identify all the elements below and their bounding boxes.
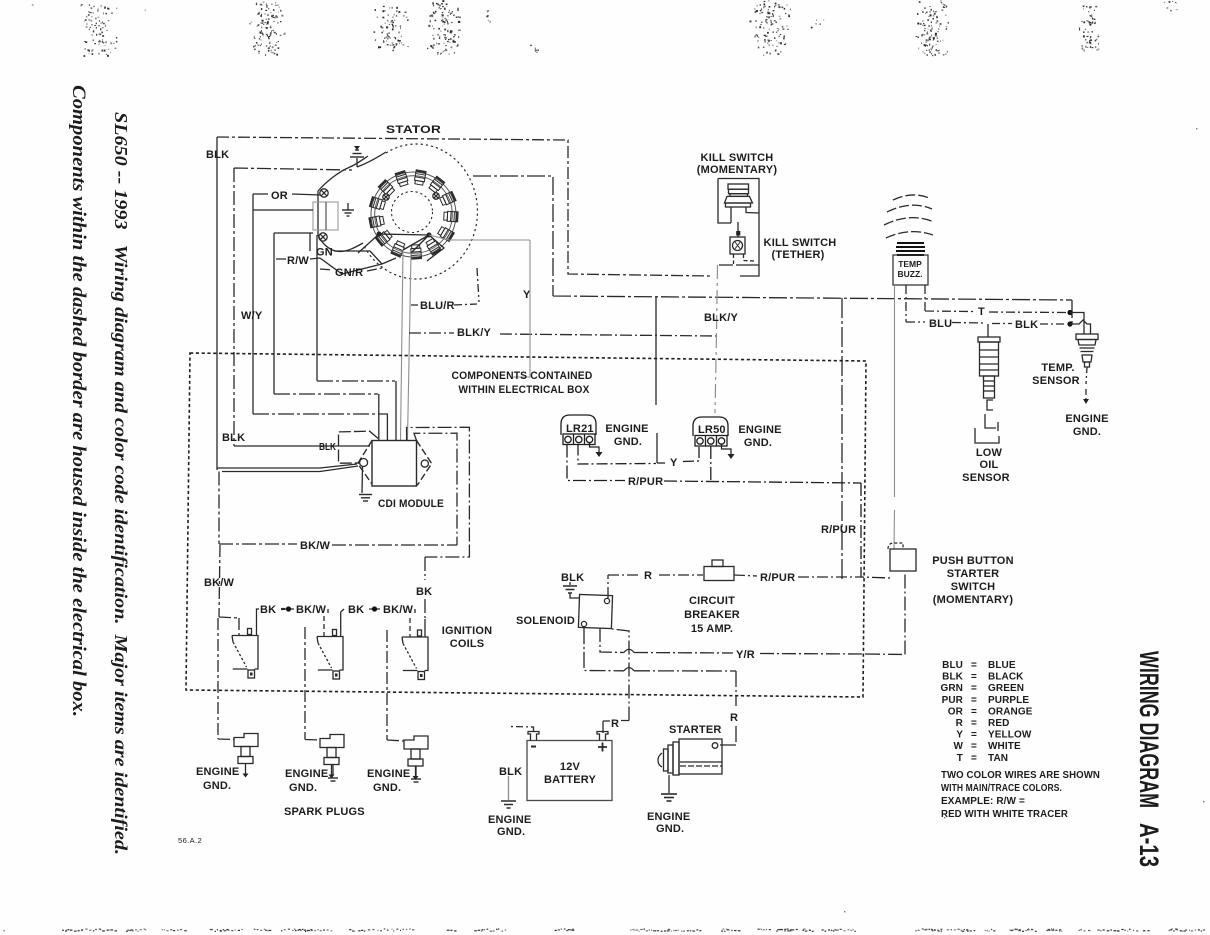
svg-text:=: = (971, 695, 977, 706)
svg-text:LOW: LOW (976, 447, 1003, 459)
battery positive post (597, 732, 608, 741)
svg-text:OIL: OIL (980, 459, 999, 471)
wire R/W branch (276, 258, 320, 259)
color code legend (940, 660, 1032, 764)
svg-text:WHITE: WHITE (988, 741, 1021, 752)
flange bolt lower (319, 233, 327, 241)
wire R/PUR from breaker (734, 575, 861, 577)
svg-text:ORANGE: ORANGE (988, 706, 1033, 717)
svg-text:BLK/Y: BLK/Y (704, 312, 738, 324)
svg-text:SPARK PLUGS: SPARK PLUGS (284, 806, 365, 818)
wire BK/W left drop (218, 545, 239, 740)
wire to spark plug 3 (387, 630, 404, 741)
svg-text:BLK: BLK (319, 442, 337, 453)
wire BLK vertical bus (216, 137, 218, 470)
svg-text:A-13: A-13 (1134, 823, 1164, 867)
flange ground top (350, 146, 364, 167)
svg-text:ENGINE: ENGINE (605, 423, 648, 435)
wire BLU/R drop (411, 268, 479, 305)
svg-text:PURPLE: PURPLE (988, 695, 1029, 706)
svg-text:BLK: BLK (561, 572, 584, 584)
wire Y/R (600, 571, 905, 655)
svg-text:BK/W: BK/W (300, 540, 331, 552)
svg-text:KILL SWITCH: KILL SWITCH (764, 237, 837, 249)
svg-text:15 AMP.: 15 AMP. (691, 623, 733, 635)
wire BLU/R gray link (429, 235, 530, 377)
wire BK/W main (219, 472, 457, 546)
solenoid ground (563, 582, 577, 593)
push button switch (888, 543, 916, 571)
battery negative lead (509, 727, 534, 732)
svg-text:BLK/Y: BLK/Y (457, 327, 491, 339)
svg-text:SOLENOID: SOLENOID (516, 615, 575, 627)
battery minus sign (531, 746, 536, 748)
wire bus third (274, 233, 313, 394)
stator connector block (313, 202, 338, 230)
spark plug 3 (404, 736, 428, 780)
svg-text:ENGINE: ENGINE (367, 768, 410, 780)
svg-text:W/Y: W/Y (241, 310, 263, 322)
svg-text:=: = (971, 683, 977, 694)
CDI module body (358, 441, 432, 487)
svg-text:TAN: TAN (988, 753, 1008, 764)
svg-text:R/W: R/W (287, 255, 309, 267)
stator left flange outline (318, 152, 386, 252)
stator winding junction node (377, 232, 382, 237)
svg-text:ENGINE: ENGINE (196, 766, 239, 778)
svg-text:BLU: BLU (929, 318, 952, 330)
svg-text:12V: 12V (560, 761, 581, 773)
svg-text:Y/R: Y/R (736, 649, 755, 661)
svg-text:RED WITH WHITE TRACER: RED WITH WHITE TRACER (941, 809, 1069, 820)
svg-text:(MOMENTARY): (MOMENTARY) (933, 594, 1014, 606)
wire Y from stator (473, 176, 1072, 324)
svg-text:R/PUR: R/PUR (628, 476, 663, 488)
svg-text:LR21: LR21 (566, 423, 594, 435)
wire solenoid to starter (584, 628, 736, 745)
starter ground lead (668, 775, 670, 793)
svg-text:SL650 -- 1993 Wiring diagram: SL650 -- 1993 Wiring diagram and color c… (111, 112, 131, 855)
stator inner dashed circle (371, 172, 456, 257)
wire Y drop to push button (841, 298, 843, 580)
wire stator gray drop A (401, 250, 404, 440)
svg-text:BLK: BLK (499, 766, 522, 778)
tether switch stem (737, 222, 739, 231)
wire BLK/Y drop from kill switch (715, 265, 718, 413)
svg-text:ENGINE: ENGINE (285, 768, 328, 780)
plug3 ground (411, 766, 421, 782)
svg-text:=: = (971, 660, 977, 671)
pair1 link BK dot BK/W (283, 609, 328, 613)
svg-text:ENGINE: ENGINE (647, 811, 690, 823)
svg-text:Components within the dashed b: Components within the dashed border are … (68, 85, 89, 717)
svg-text:EXAMPLE: R/W =: EXAMPLE: R/W = (941, 796, 1025, 807)
svg-text:=: = (971, 753, 977, 764)
wire stator gray drop B (408, 253, 412, 440)
wire BLK top (bus to kill switch) (217, 137, 712, 276)
pair2 link BK dot BK/W (369, 609, 415, 613)
svg-text:ENGINE: ENGINE (738, 424, 781, 436)
svg-text:BLK: BLK (222, 432, 245, 444)
svg-text:COMPONENTS CONTAINED: COMPONENTS CONTAINED (452, 370, 593, 382)
wire to spark plug 2 (305, 627, 320, 740)
svg-text:SWITCH: SWITCH (951, 581, 996, 593)
svg-text:R: R (644, 570, 652, 582)
ignition coil 3 (402, 630, 428, 680)
svg-text:TWO COLOR WIRES ARE SHOWN: TWO COLOR WIRES ARE SHOWN (941, 770, 1100, 781)
svg-text:KILL SWITCH: KILL SWITCH (701, 152, 774, 164)
relay LR50 (693, 417, 728, 446)
svg-text:R/PUR: R/PUR (821, 524, 856, 536)
svg-text:56.A.2: 56.A.2 (178, 836, 202, 845)
svg-text:BLACK: BLACK (988, 672, 1024, 683)
svg-text:ENGINE: ENGINE (1065, 413, 1108, 425)
svg-text:YELLOW: YELLOW (988, 730, 1032, 741)
svg-text:R: R (611, 718, 619, 730)
svg-text:T: T (978, 306, 985, 318)
spark plug 2 (320, 735, 344, 779)
solenoid ground lead (570, 593, 580, 598)
kill switch housing (718, 179, 759, 277)
svg-text:BLUE: BLUE (988, 660, 1016, 671)
svg-text:WITH MAIN/TRACE COLORS.: WITH MAIN/TRACE COLORS. (941, 783, 1062, 794)
kill switch button leads (731, 207, 759, 223)
starter body (658, 739, 722, 775)
junction node BLK (1067, 321, 1072, 326)
svg-text:BATTERY: BATTERY (544, 774, 597, 786)
spark plug 1 (234, 734, 258, 778)
plug2 ground (328, 765, 338, 781)
legend note (941, 770, 1100, 820)
relay LR50 ground hook (722, 445, 732, 455)
svg-text:SENSOR: SENSOR (962, 472, 1010, 484)
svg-text:BK: BK (416, 586, 432, 598)
wire BLK to junction (992, 323, 1066, 326)
svg-text:=: = (971, 706, 977, 717)
wire from CDI to BK/W link B (414, 433, 457, 545)
svg-text:STARTER: STARTER (669, 724, 722, 736)
svg-text:R/PUR: R/PUR (760, 572, 795, 584)
temp buzzer sound waves (884, 195, 934, 238)
solenoid body (578, 594, 612, 628)
svg-text:W: W (953, 741, 963, 752)
temp sensor symbol (1076, 334, 1098, 367)
svg-text:ENGINE: ENGINE (488, 814, 531, 826)
battery negative post (528, 732, 539, 741)
svg-text:TEMP.: TEMP. (1041, 362, 1074, 374)
tether switch leads (734, 254, 755, 264)
temp buzzer speaker stripes (896, 243, 925, 255)
CDI left bolt (360, 459, 368, 467)
stator bolt circle B (433, 193, 439, 199)
stator coil ring (369, 170, 458, 259)
svg-text:SENSOR: SENSOR (1032, 375, 1080, 387)
svg-text:GND.: GND. (1073, 426, 1101, 438)
CDI connector hook (339, 431, 379, 463)
wire to connector block left (253, 209, 313, 211)
svg-text:Y: Y (956, 730, 963, 741)
svg-text:BREAKER: BREAKER (684, 609, 740, 621)
svg-text:STATOR: STATOR (386, 124, 441, 136)
svg-text:(TETHER): (TETHER) (772, 249, 825, 261)
stator center hole (392, 192, 433, 233)
svg-text:OR: OR (948, 706, 964, 717)
connector block ground (342, 203, 354, 216)
wire BLK/Y left (409, 333, 717, 336)
battery plus sign (598, 743, 607, 752)
coil2 left lead (323, 616, 325, 637)
svg-text:TEMP: TEMP (898, 259, 922, 269)
svg-text:GND.: GND. (744, 437, 772, 449)
svg-text:PUR: PUR (942, 695, 964, 706)
svg-text:BLK: BLK (1015, 319, 1038, 331)
kill switch tether body (730, 237, 745, 254)
wire GN branch (310, 233, 370, 381)
CDI ground lead (361, 467, 364, 494)
junction node T (1067, 310, 1072, 315)
temp buzzer lead BLU (906, 285, 985, 323)
svg-text:BLU: BLU (942, 660, 963, 671)
temp buzzer box TEMP BUZZ (893, 255, 928, 285)
svg-text:GRN: GRN (940, 683, 963, 694)
svg-text:=: = (971, 741, 977, 752)
coil1 right lead (257, 609, 260, 636)
svg-text:BK: BK (260, 604, 276, 616)
svg-text:R: R (730, 712, 738, 724)
svg-text:GND.: GND. (373, 782, 401, 794)
wire fan into CDI top (379, 381, 396, 440)
svg-text:OR: OR (271, 190, 288, 202)
svg-text:BLK: BLK (942, 672, 964, 683)
wire battery R (603, 629, 629, 733)
svg-text:GN: GN (316, 247, 333, 259)
wire W/Y vertical bus (252, 194, 254, 414)
svg-text:BLU/R: BLU/R (420, 300, 455, 312)
wire Y drop to relays (656, 297, 657, 463)
relay LR21 ground hook (590, 443, 600, 452)
svg-text:STARTER: STARTER (947, 568, 1000, 580)
kill switch button (725, 184, 753, 207)
svg-text:GND.: GND. (656, 823, 684, 835)
svg-text:WITHIN ELECTRICAL BOX: WITHIN ELECTRICAL BOX (459, 384, 590, 396)
ignition coil 1 (232, 629, 258, 679)
battery BLK ground lead (508, 776, 510, 800)
CDI right bolt (421, 460, 428, 467)
stator outer housing circle (363, 144, 477, 279)
low oil sensor symbol (975, 324, 1000, 443)
temp buzzer lead T (925, 285, 1066, 313)
wire GN/R branch (320, 268, 382, 271)
svg-text:BK/W: BK/W (296, 604, 327, 616)
temp sensor ground lead (1086, 367, 1087, 399)
battery ground (501, 801, 516, 808)
coil3 right lead (424, 619, 426, 637)
CDI ground (359, 495, 372, 502)
flange bolt upper (320, 189, 328, 197)
circuit breaker (704, 560, 734, 581)
svg-text:GND.: GND. (289, 782, 317, 794)
wire OR (253, 194, 321, 195)
coil3 left lead (409, 618, 411, 637)
svg-text:BUZZ.: BUZZ. (897, 269, 922, 279)
svg-text:COILS: COILS (450, 638, 485, 650)
wire W/Y horizontal into box (253, 381, 395, 414)
wire bus second (to flange top) (234, 168, 352, 446)
temp buzzer lead to push button (893, 285, 896, 549)
svg-text:GREEN: GREEN (988, 683, 1024, 694)
svg-text:GND.: GND. (203, 780, 231, 792)
svg-text:PUSH BUTTON: PUSH BUTTON (932, 555, 1013, 567)
stator winding taps (320, 234, 444, 274)
battery body (527, 741, 612, 801)
wire BLK bus into CDI (217, 446, 370, 472)
svg-text:GND.: GND. (497, 826, 525, 838)
relay LR21 (561, 415, 596, 445)
svg-text:=: = (971, 718, 977, 729)
svg-text:=: = (971, 672, 977, 683)
ignition coil 2 (317, 630, 343, 680)
electrical box dashed border (186, 353, 866, 697)
starter ground (661, 794, 677, 801)
svg-text:RED: RED (988, 718, 1009, 729)
wire R/PUR relay line (567, 445, 861, 484)
svg-text:CDI MODULE: CDI MODULE (378, 498, 444, 510)
coil2 right lead (341, 609, 344, 637)
svg-text:CIRCUIT: CIRCUIT (689, 595, 735, 607)
svg-text:BK/W: BK/W (383, 604, 414, 616)
svg-text:WIRING DIAGRAM: WIRING DIAGRAM (1134, 651, 1164, 808)
svg-text:(MOMENTARY): (MOMENTARY) (697, 164, 778, 176)
wire Y between relays (578, 445, 699, 465)
svg-text:=: = (971, 730, 977, 741)
svg-text:BK: BK (348, 604, 364, 616)
stator bolt circle A (383, 194, 389, 200)
wire R solenoid to breaker (608, 575, 703, 598)
svg-text:R: R (956, 718, 964, 729)
wire R/PUR right vertical (861, 483, 890, 578)
svg-text:GND.: GND. (614, 436, 642, 448)
svg-text:T: T (957, 753, 963, 764)
svg-text:GN/R: GN/R (335, 267, 363, 279)
svg-text:LR50: LR50 (698, 424, 726, 436)
svg-text:Y: Y (670, 457, 678, 469)
svg-text:IGNITION: IGNITION (442, 625, 493, 637)
junction links to temp sensor (1070, 313, 1091, 335)
wire from CDI to BK/W link A (407, 427, 470, 619)
